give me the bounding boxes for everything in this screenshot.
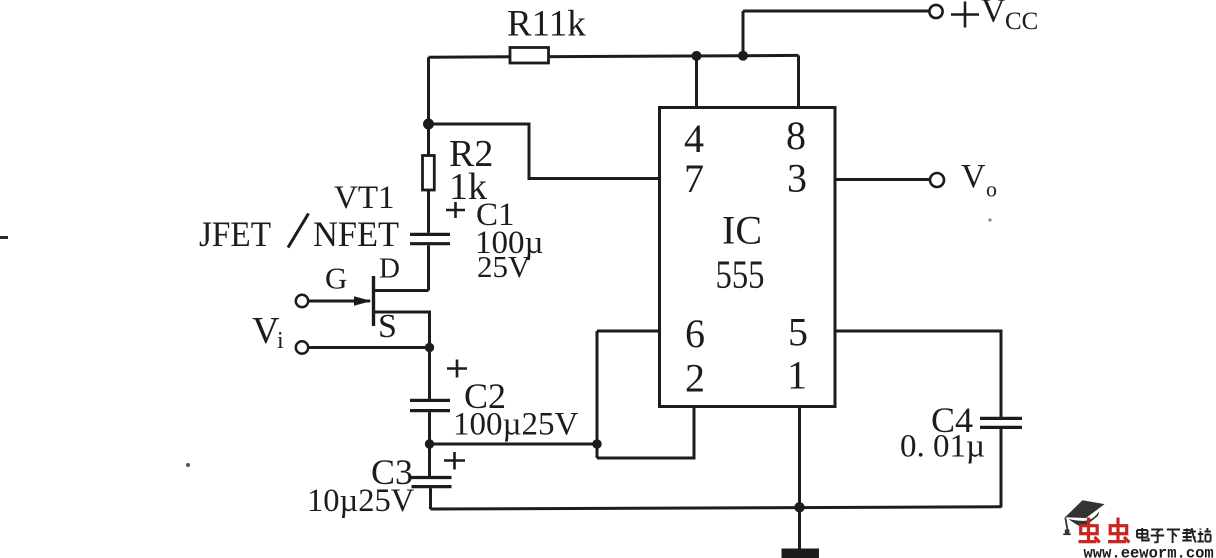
label Vo: [961, 158, 997, 202]
wire: [427, 245, 430, 290]
svg-text:8: 8: [786, 113, 806, 158]
transistor VT1 channel: [372, 276, 375, 326]
svg-text:1: 1: [787, 353, 807, 398]
label +Vcc: [951, 0, 1038, 35]
wire: [429, 55, 799, 57]
terminal Vo: [930, 173, 944, 187]
junction: [592, 439, 601, 448]
junction: [425, 439, 434, 448]
transistor VT1 drain wire: [374, 289, 429, 292]
svg-text:R11k: R11k: [507, 4, 586, 45]
svg-text:NFET: NFET: [313, 214, 399, 254]
wire: [428, 412, 431, 476]
stray mark: [186, 463, 190, 467]
junction: [794, 502, 804, 512]
wire: [309, 346, 430, 349]
wire: [835, 178, 929, 181]
svg-text:3: 3: [787, 156, 807, 201]
svg-text:7: 7: [684, 156, 704, 201]
svg-text:IC: IC: [722, 208, 762, 253]
wire: [431, 507, 1002, 509]
svg-text:V: V: [981, 0, 1006, 30]
wire: [597, 330, 660, 333]
wire: [427, 57, 430, 155]
svg-text:0. 01µ: 0. 01µ: [900, 429, 985, 465]
svg-text:6: 6: [685, 311, 705, 356]
capacitor C3: [412, 478, 452, 487]
svg-text:V: V: [252, 310, 280, 352]
svg-text:o: o: [986, 177, 997, 202]
stray mark: [988, 218, 991, 221]
wire: [596, 331, 599, 458]
watermark text dianzixiazaizhan: [1137, 528, 1211, 543]
wire: [742, 11, 745, 56]
wire: [597, 407, 694, 459]
svg-text:i: i: [277, 328, 284, 354]
svg-text:5: 5: [788, 310, 808, 355]
watermark logo chongchong: [1079, 518, 1130, 543]
terminal +Vcc: [929, 5, 942, 18]
wire: [429, 124, 661, 179]
watermark logo graduation cap: [1063, 500, 1104, 534]
svg-text:G: G: [325, 261, 347, 296]
svg-text:4: 4: [684, 116, 704, 161]
wire: [428, 348, 431, 399]
label C3 polarity: [444, 452, 465, 470]
svg-text:D: D: [379, 253, 400, 285]
resistor R1: [510, 48, 549, 64]
capacitor C1: [410, 234, 450, 243]
stray mark: [0, 236, 8, 239]
wire: [427, 190, 430, 233]
wire: [430, 443, 598, 446]
ground: [782, 549, 820, 558]
junction: [692, 51, 702, 61]
label Vi: [252, 310, 284, 354]
svg-text:V: V: [961, 158, 986, 195]
label JFET/NFET: [199, 214, 399, 255]
wire: [797, 55, 800, 108]
capacitor C2: [410, 400, 450, 410]
transistor VT1 gate arrow: [354, 296, 372, 306]
svg-text:2: 2: [685, 356, 705, 401]
terminal input S: [296, 341, 308, 353]
wire: [743, 10, 929, 13]
transistor VT1 gate wire: [309, 300, 371, 303]
IC U1 box: [660, 108, 836, 407]
svg-text:VT1: VT1: [334, 180, 395, 216]
wire: [835, 331, 1001, 417]
svg-text:100µ25V: 100µ25V: [453, 407, 579, 443]
junction: [738, 51, 748, 61]
svg-text:S: S: [378, 308, 397, 345]
wire: [695, 56, 698, 108]
svg-text:www.eeworm.com: www.eeworm.com: [1084, 545, 1214, 558]
label C2 polarity: [447, 360, 467, 378]
label C1 polarity: [446, 202, 465, 218]
ground: [798, 507, 801, 549]
svg-text:CC: CC: [1005, 8, 1038, 35]
svg-text:JFET: JFET: [199, 214, 271, 254]
svg-text:10µ25V: 10µ25V: [307, 483, 415, 519]
svg-text:555: 555: [716, 252, 765, 297]
svg-text:25V: 25V: [477, 249, 531, 284]
wire: [798, 407, 801, 508]
wire: [429, 488, 432, 509]
junction node A: [423, 119, 434, 130]
capacitor C4: [980, 418, 1022, 427]
transistor VT1 source wire: [374, 312, 430, 348]
junction: [425, 343, 434, 352]
wire: [1000, 429, 1003, 508]
terminal input G: [296, 295, 308, 307]
resistor R2: [423, 156, 435, 191]
